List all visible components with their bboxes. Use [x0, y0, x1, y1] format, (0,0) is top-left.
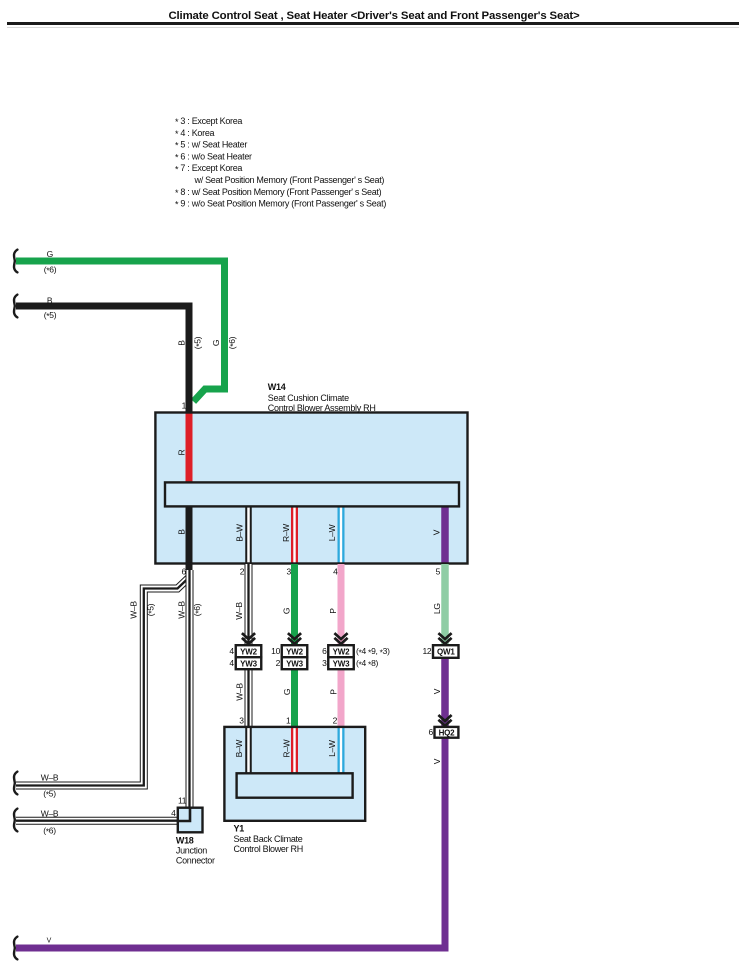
svg-text:Seat Back Climate: Seat Back Climate	[234, 834, 303, 844]
svg-text:V: V	[432, 688, 442, 694]
svg-text:L–W: L–W	[327, 740, 337, 757]
svg-text:V: V	[432, 529, 442, 535]
svg-text:(*6): (*6)	[192, 603, 203, 616]
svg-text:(*4 *8): (*4 *8)	[356, 658, 378, 669]
svg-text:2: 2	[276, 658, 281, 668]
svg-text:* 3 : Except Korea: * 3 : Except Korea	[175, 116, 242, 127]
svg-text:R–W: R–W	[281, 524, 291, 542]
svg-text:Climate Control Seat , Seat He: Climate Control Seat , Seat Heater <Driv…	[168, 10, 580, 22]
svg-text:1: 1	[286, 716, 291, 726]
svg-text:R–W: R–W	[282, 739, 292, 757]
svg-text:W–B: W–B	[129, 601, 139, 619]
svg-text:(*5): (*5)	[193, 336, 204, 349]
svg-text:B–W: B–W	[234, 740, 244, 758]
svg-text:W–B: W–B	[235, 683, 245, 701]
svg-text:V: V	[432, 758, 442, 764]
svg-text:(*5): (*5)	[44, 310, 57, 321]
svg-text:YW3: YW3	[333, 659, 350, 668]
svg-text:3: 3	[286, 567, 291, 577]
svg-text:6: 6	[181, 567, 186, 577]
svg-text:* 4 : Korea: * 4 : Korea	[175, 128, 215, 139]
svg-text:YW2: YW2	[286, 647, 303, 656]
svg-text:(*4 *9, *3): (*4 *9, *3)	[356, 646, 390, 657]
svg-text:R: R	[176, 450, 186, 456]
svg-text:2: 2	[240, 567, 245, 577]
svg-text:G: G	[282, 689, 292, 695]
svg-text:W–B: W–B	[176, 601, 186, 619]
svg-text:(*6): (*6)	[44, 265, 57, 276]
svg-text:(*5): (*5)	[43, 789, 56, 800]
svg-text:4: 4	[171, 808, 176, 818]
svg-text:* 7 : Except Korea: * 7 : Except Korea	[175, 163, 242, 174]
svg-text:L–W: L–W	[327, 524, 337, 541]
svg-text:3: 3	[322, 658, 327, 668]
svg-text:6: 6	[428, 727, 433, 737]
svg-text:B–W: B–W	[235, 524, 245, 542]
svg-text:* 6 : w/o Seat Heater: * 6 : w/o Seat Heater	[175, 151, 252, 162]
svg-text:* 8 : w/ Seat Position Memory: * 8 : w/ Seat Position Memory (Front Pas…	[175, 187, 382, 198]
svg-text:B: B	[47, 296, 53, 306]
svg-text:G: G	[47, 249, 53, 259]
svg-text:W–B: W–B	[41, 773, 59, 783]
svg-text:(*6): (*6)	[43, 826, 56, 837]
svg-text:W–B: W–B	[41, 809, 59, 819]
svg-text:4: 4	[229, 646, 234, 656]
svg-text:YW2: YW2	[240, 647, 257, 656]
svg-text:11: 11	[178, 796, 187, 806]
svg-text:P: P	[329, 689, 339, 695]
svg-text:12: 12	[422, 646, 431, 656]
svg-text:(*6): (*6)	[227, 336, 238, 349]
svg-text:V: V	[47, 938, 52, 945]
svg-text:W–B: W–B	[234, 602, 244, 620]
svg-text:G: G	[282, 608, 292, 614]
svg-text:G: G	[211, 340, 221, 346]
svg-text:Junction: Junction	[176, 846, 207, 856]
svg-text:Y1: Y1	[234, 824, 245, 834]
svg-text:B: B	[176, 529, 186, 535]
svg-text:2: 2	[333, 716, 338, 726]
svg-text:YW3: YW3	[286, 659, 303, 668]
svg-text:3: 3	[239, 716, 244, 726]
svg-text:LG: LG	[432, 603, 442, 614]
svg-text:Control Blower Assembly RH: Control Blower Assembly RH	[268, 403, 376, 413]
svg-text:5: 5	[436, 567, 441, 577]
svg-text:P: P	[328, 608, 338, 614]
svg-text:W14: W14	[268, 382, 286, 392]
svg-text:* 9 : w/o Seat Position Memory: * 9 : w/o Seat Position Memory (Front Pa…	[175, 199, 386, 210]
svg-text:Control Blower RH: Control Blower RH	[234, 844, 303, 854]
svg-text:6: 6	[322, 646, 327, 656]
svg-text:w/ Seat Position Memory (Front: w/ Seat Position Memory (Front Passenger…	[194, 175, 385, 185]
svg-text:* 5 : w/ Seat Heater: * 5 : w/ Seat Heater	[175, 140, 247, 151]
svg-text:W18: W18	[176, 836, 194, 846]
svg-text:10: 10	[271, 646, 280, 656]
svg-text:(*5): (*5)	[145, 603, 156, 616]
svg-text:HQ2: HQ2	[439, 728, 456, 737]
svg-text:4: 4	[333, 567, 338, 577]
svg-text:B: B	[177, 340, 187, 346]
svg-text:Seat Cushion Climate: Seat Cushion Climate	[268, 393, 349, 403]
svg-text:Connector: Connector	[176, 856, 215, 866]
svg-text:QW1: QW1	[437, 648, 455, 657]
svg-text:YW2: YW2	[333, 647, 350, 656]
svg-text:YW3: YW3	[240, 659, 257, 668]
svg-text:1: 1	[182, 401, 187, 411]
svg-text:4: 4	[229, 658, 234, 668]
